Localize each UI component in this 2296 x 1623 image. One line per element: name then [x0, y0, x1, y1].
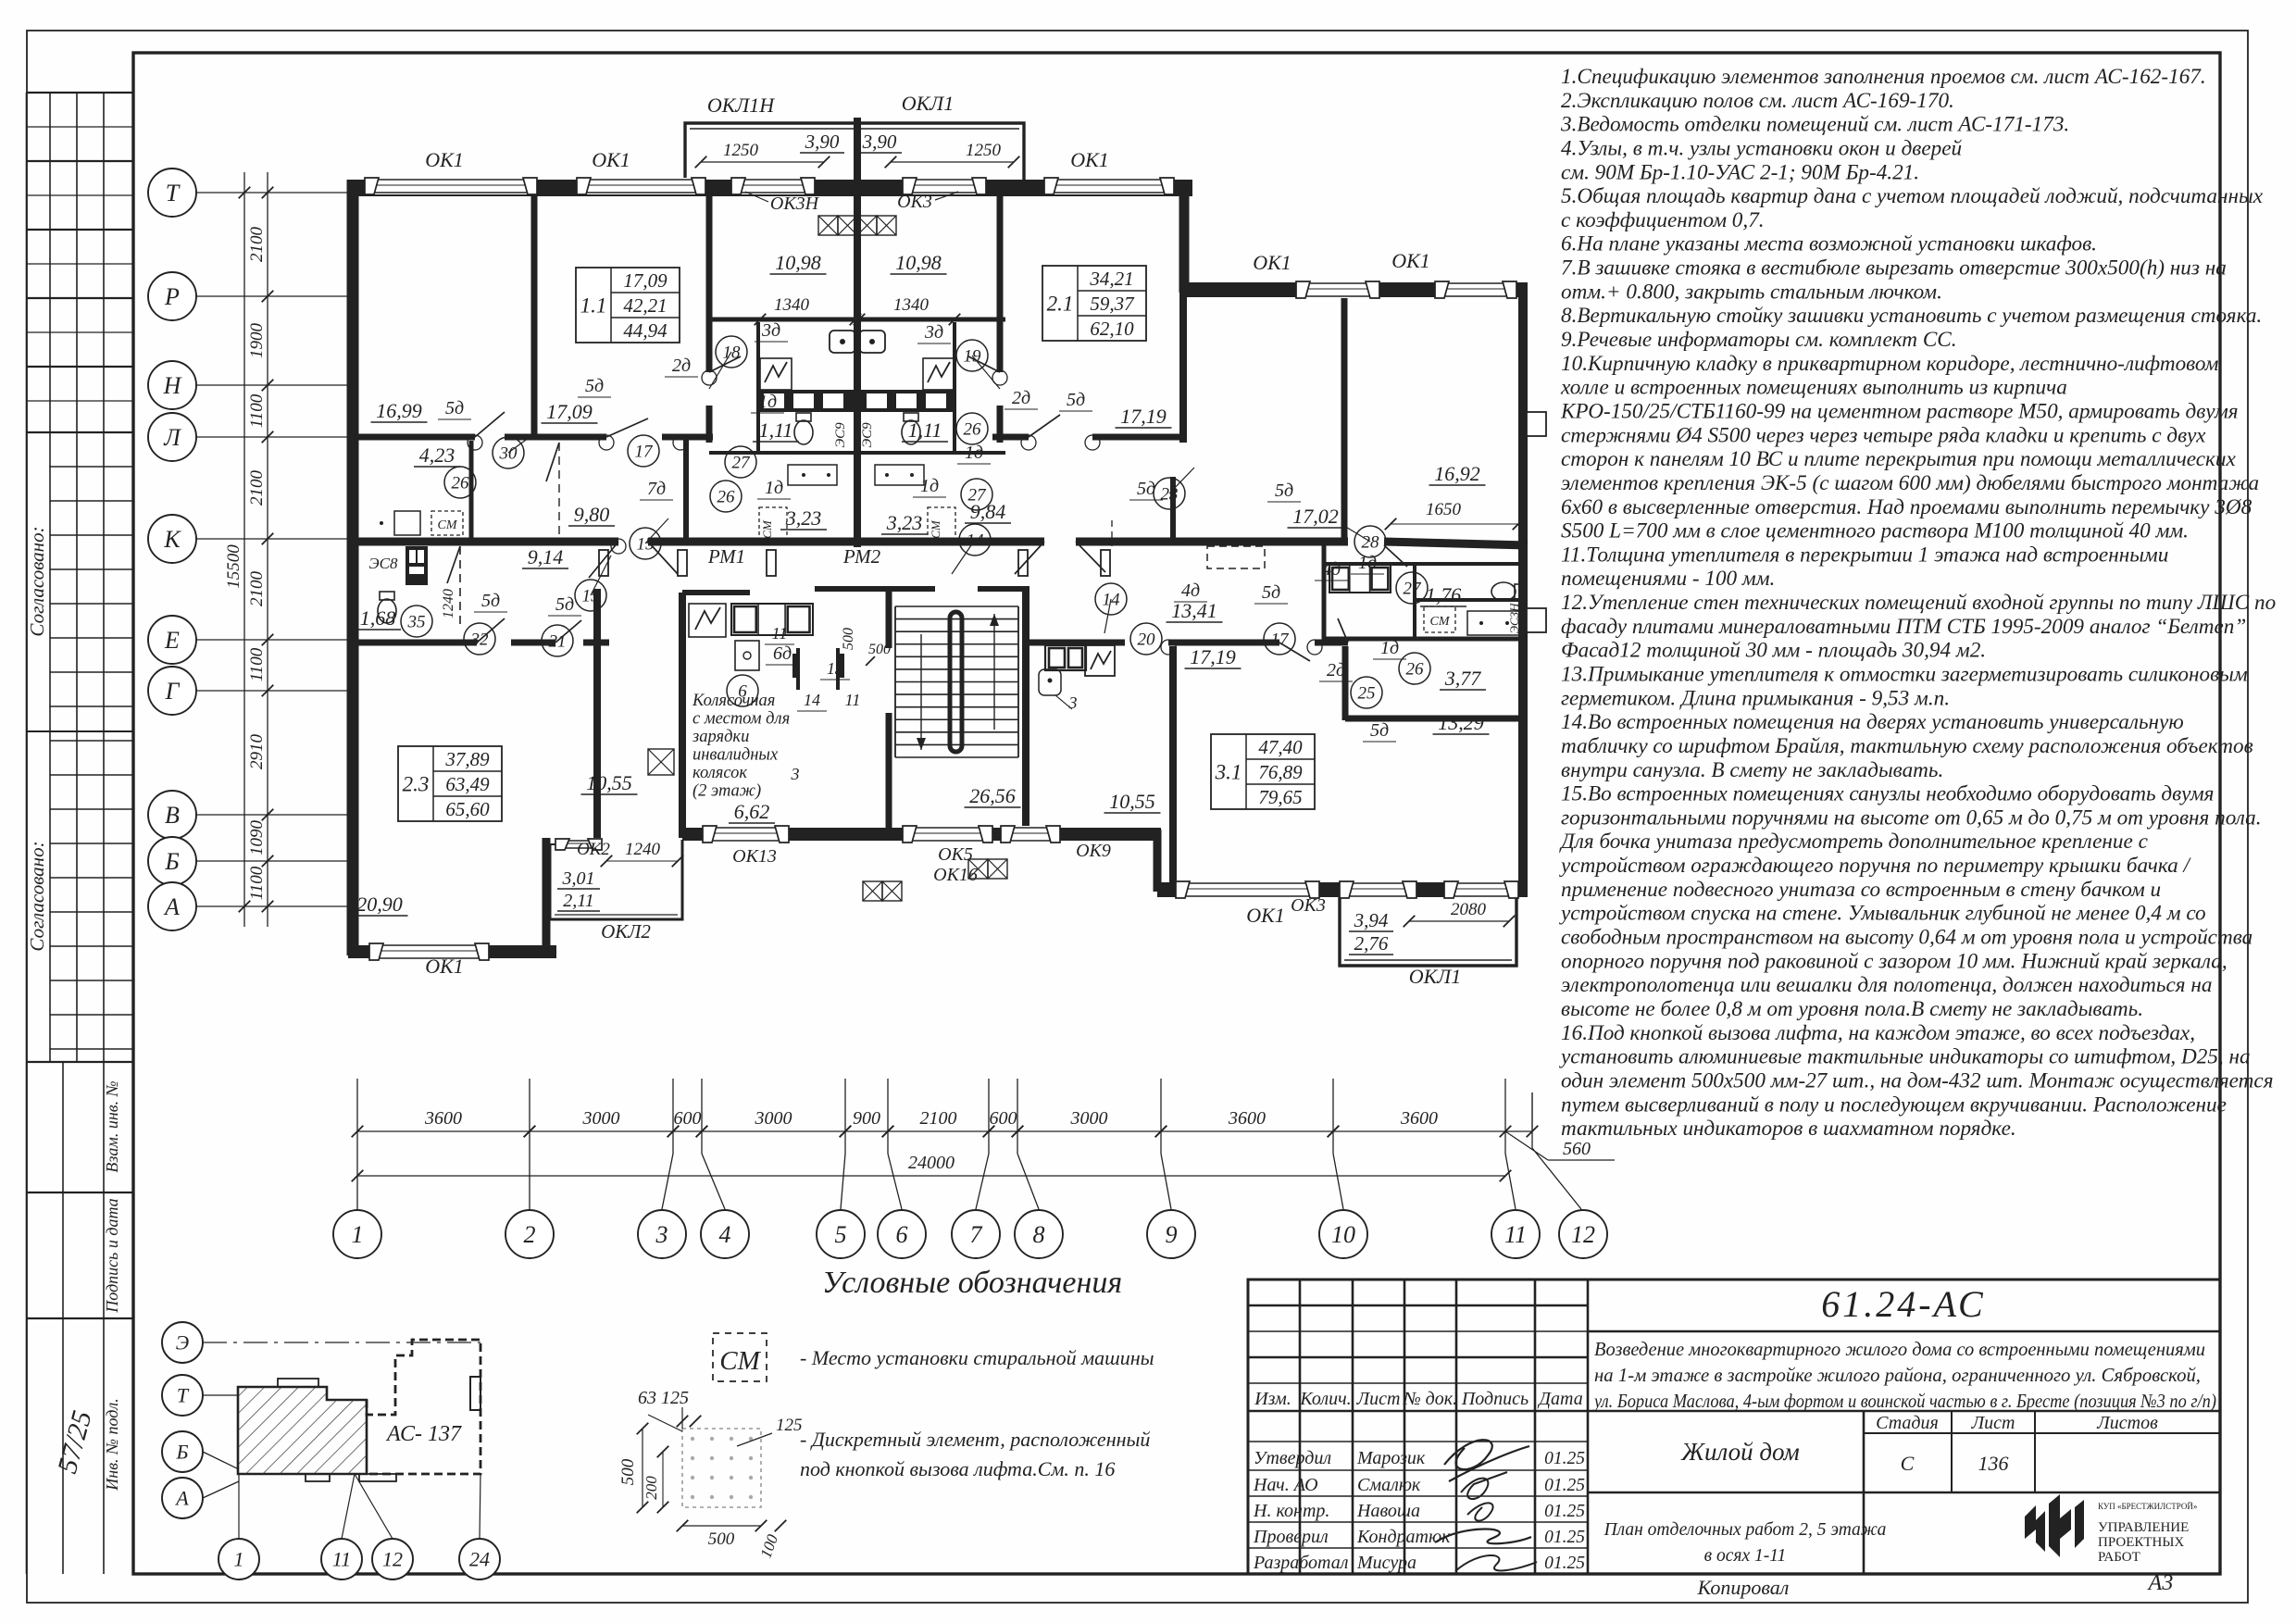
door circle 26 [1399, 653, 1430, 684]
top wall left block [348, 180, 1192, 196]
left wall [347, 180, 359, 955]
svg-text:11: 11 [772, 624, 788, 643]
left strip columns [26, 93, 28, 1574]
svg-text:с коэффициентом 0,7.: с коэффициентом 0,7. [1561, 208, 1765, 232]
svg-text:СМ: СМ [719, 1346, 761, 1376]
svg-text:27: 27 [732, 454, 752, 473]
svg-text:помещениями - 100 мм.: помещениями - 100 мм. [1561, 567, 1775, 591]
key axis Э [162, 1322, 203, 1363]
svg-text:3,01: 3,01 [562, 868, 595, 889]
svg-text:Условные обозначения: Условные обозначения [822, 1266, 1122, 1300]
dark instal band left [758, 390, 854, 412]
svg-text:12: 12 [1571, 1221, 1595, 1248]
svg-text:1,11: 1,11 [908, 418, 942, 442]
svg-text:высоте не более 0,8 м от уровн: высоте не более 0,8 м от уровня пола.В с… [1561, 997, 2143, 1021]
svg-text:А3: А3 [2147, 1571, 2174, 1595]
bay OKL2 [550, 840, 682, 919]
area table 2.3 [398, 746, 502, 821]
cluster walls [756, 322, 760, 454]
svg-text:26,56: 26,56 [969, 784, 1016, 807]
svg-text:63,49: 63,49 [445, 773, 490, 795]
svg-text:УПРАВЛЕНИЕ: УПРАВЛЕНИЕ [2098, 1520, 2189, 1535]
svg-text:фасаду плитами минераловатными: фасаду плитами минераловатными ПТМ СТБ 1… [1561, 615, 2246, 639]
svg-text:ОК2: ОК2 [577, 840, 610, 859]
svg-text:2,76: 2,76 [1354, 932, 1389, 955]
svg-text:20: 20 [1138, 630, 1156, 650]
svg-text:Утвердил: Утвердил [1254, 1448, 1331, 1468]
wardrobe dashed [1207, 546, 1265, 568]
vestibule south wall y694 [1026, 640, 1125, 646]
svg-text:3: 3 [1068, 693, 1078, 712]
svg-text:зарядки: зарядки [692, 728, 749, 746]
svg-text:4д: 4д [1322, 559, 1341, 580]
doc number 61.24-AC [1588, 1330, 2220, 1333]
svg-text:17: 17 [635, 443, 655, 462]
svg-text:136: 136 [1978, 1452, 2009, 1475]
kitchen counter right block [1329, 565, 1391, 593]
key axis 12 [372, 1539, 413, 1579]
svg-text:500: 500 [868, 642, 891, 657]
stair walls [886, 589, 892, 648]
WC right [902, 413, 920, 444]
bottom wall right block [1157, 882, 1528, 897]
svg-text:7.В зашивке стояка в вестибюле: 7.В зашивке стояка в вестибюле вырезать … [1561, 256, 2227, 281]
svg-text:Кондратюк: Кондратюк [1356, 1527, 1451, 1547]
svg-text:РМ2: РМ2 [842, 545, 881, 568]
dark instal band right [861, 390, 956, 412]
svg-text:ОКЛ1: ОКЛ1 [902, 92, 954, 115]
svg-text:5д: 5д [1067, 390, 1085, 410]
svg-text:18: 18 [723, 343, 742, 363]
logo [2025, 1494, 2084, 1557]
key axis 24 [459, 1539, 500, 1579]
svg-text:17: 17 [1271, 630, 1291, 650]
svg-text:44,94: 44,94 [623, 319, 668, 342]
svg-text:1,68: 1,68 [360, 606, 396, 630]
svg-text:6д: 6д [773, 643, 792, 664]
svg-text:26: 26 [452, 474, 470, 493]
fridge zigzag right [923, 358, 955, 390]
svg-text:2100: 2100 [247, 227, 267, 263]
svg-text:13,41: 13,41 [1171, 599, 1217, 622]
svg-text:1240: 1240 [441, 589, 456, 618]
L-wall right apt segments [992, 434, 1029, 441]
svg-text:3,90: 3,90 [805, 131, 840, 153]
svg-text:76,89: 76,89 [1258, 761, 1303, 783]
axis 4 [701, 1079, 703, 1154]
svg-text:14: 14 [804, 691, 820, 709]
axis Г [148, 667, 196, 715]
svg-text:27: 27 [968, 486, 988, 506]
wall x766 room 1.1 right [706, 190, 713, 372]
svg-text:ОК1: ОК1 [592, 148, 630, 171]
svg-text:Колич.: Колич. [1299, 1389, 1351, 1409]
svg-text:14: 14 [967, 531, 985, 551]
svg-text:1д: 1д [1358, 553, 1377, 573]
svg-text:500: 500 [708, 1529, 735, 1549]
svg-text:2100: 2100 [247, 571, 267, 607]
door circle 15 [630, 528, 661, 559]
svg-text:- Дискретный элемент, располож: - Дискретный элемент, расположенный [800, 1428, 1150, 1451]
svg-text:ЭС8: ЭС8 [369, 555, 398, 572]
balcony top OKL1N OKL1 [685, 123, 1024, 192]
svg-text:15500: 15500 [224, 544, 243, 589]
step wall between blocks [1179, 184, 1190, 293]
windows corridor bottom [703, 826, 789, 843]
svg-text:5д: 5д [1370, 720, 1389, 741]
svg-text:инвалидных: инвалидных [693, 746, 779, 765]
svg-text:17,09: 17,09 [623, 269, 668, 292]
svg-text:17,19: 17,19 [1120, 405, 1167, 428]
svg-text:5д: 5д [1137, 479, 1155, 499]
svg-text:500: 500 [841, 628, 856, 650]
door circle 26 [956, 413, 988, 444]
svg-text:КРО-150/25/СТБ1160-99 на цемен: КРО-150/25/СТБ1160-99 на цементном раств… [1560, 399, 2239, 423]
svg-text:4.Узлы, в т.ч. узлы установки: 4.Узлы, в т.ч. узлы установки окон и две… [1561, 136, 1963, 160]
left strip top table [27, 92, 134, 94]
svg-text:ОК5: ОК5 [938, 844, 973, 865]
svg-text:5: 5 [835, 1221, 847, 1248]
svg-text:24000: 24000 [908, 1153, 955, 1173]
svg-text:1100: 1100 [247, 647, 267, 681]
svg-text:Листов: Листов [2096, 1413, 2158, 1433]
door circle 26 [444, 467, 476, 498]
door circle 30 [493, 437, 524, 468]
svg-text:13: 13 [827, 659, 843, 678]
area table 3.1 [1211, 734, 1315, 809]
svg-text:СМ: СМ [760, 519, 774, 539]
svg-text:3д: 3д [761, 320, 780, 341]
svg-text:26: 26 [964, 420, 982, 440]
svg-text:СМ: СМ [438, 518, 458, 532]
party wall x926 [854, 192, 861, 547]
washbasin cabinets [788, 465, 837, 485]
svg-text:2,11: 2,11 [563, 891, 594, 911]
vent blocks lower [648, 749, 674, 775]
wall x1267 below 17,02 [1170, 477, 1176, 545]
svg-text:6х60 в высверленные отверстия.: 6х60 в высверленные отверстия. Над проем… [1561, 495, 2252, 519]
svg-text:24: 24 [469, 1548, 490, 1571]
svg-text:01.25: 01.25 [1544, 1476, 1585, 1495]
svg-text:11: 11 [1504, 1221, 1527, 1248]
svg-text:10.Кирпичную кладку в прикварт: 10.Кирпичную кладку в приквартирном кори… [1561, 352, 2219, 376]
svg-text:Подпись: Подпись [1461, 1389, 1529, 1409]
wall x509 bath 4.23 [469, 441, 474, 540]
svg-text:3.Ведомость отделки помещений: 3.Ведомость отделки помещений см. лист А… [1560, 113, 2069, 137]
svg-text:Б: Б [176, 1441, 189, 1464]
svg-text:внутри санузла. В смету не зак: внутри санузла. В смету не закладывать. [1561, 758, 1943, 782]
svg-text:ОК1: ОК1 [425, 955, 464, 978]
main cross wall x1278 lower [1179, 293, 1187, 443]
svg-text:АС- 137: АС- 137 [385, 1422, 462, 1446]
key axis Б [162, 1431, 203, 1472]
svg-text:15.Во встроенных помещениях са: 15.Во встроенных помещениях санузлы необ… [1561, 782, 2214, 806]
left vertical dimension lines [243, 172, 245, 927]
svg-text:Для бочка унитаза предусмотрет: Для бочка унитаза предусмотреть дополнит… [1559, 830, 2149, 854]
axis 12 [1531, 1092, 1533, 1148]
svg-text:стержнями Ø4 S500 через через: стержнями Ø4 S500 через через четыре ряд… [1561, 423, 2206, 447]
svg-text:5д: 5д [1275, 481, 1293, 501]
svg-text:А: А [163, 893, 180, 920]
svg-text:ОК1: ОК1 [1391, 249, 1430, 272]
door circle 20 [1130, 623, 1162, 655]
axis 5 [844, 1079, 846, 1154]
svg-text:1: 1 [352, 1221, 364, 1248]
fridge zigzag left [760, 358, 792, 390]
door circle 15 [575, 580, 606, 611]
axis А [148, 882, 196, 930]
axis Т [148, 169, 196, 217]
svg-text:устройством ограждающего поруч: устройством ограждающего поручня по пери… [1559, 854, 2192, 878]
door circle 27 [725, 446, 756, 478]
svg-text:2д: 2д [1012, 388, 1030, 408]
axis 9 [1160, 1079, 1162, 1154]
door leaves L-wall [475, 412, 505, 437]
axis В [148, 791, 196, 839]
svg-text:1240: 1240 [625, 840, 661, 859]
svg-text:1100: 1100 [247, 866, 267, 900]
svg-text:01.25: 01.25 [1544, 1449, 1585, 1468]
corridor bottom wall [682, 828, 1161, 841]
svg-text:ЭС9: ЭС9 [833, 422, 848, 448]
svg-text:79,65: 79,65 [1258, 786, 1302, 808]
svg-text:17,19: 17,19 [1190, 645, 1236, 668]
svg-text:ОК1: ОК1 [1070, 148, 1109, 171]
svg-text:применение подвесного унитаза: применение подвесного унитаза со встроен… [1561, 878, 2161, 902]
svg-text:3000: 3000 [582, 1108, 620, 1129]
svg-text:9.Речевые информаторы см. комп: 9.Речевые информаторы см. комплект СС. [1561, 328, 1957, 352]
area table 2.1 [1042, 266, 1146, 341]
svg-text:5.Общая площадь квартир дана с: 5.Общая площадь квартир дана с учетом пл… [1561, 184, 2264, 208]
svg-text:59,37: 59,37 [1090, 293, 1135, 315]
svg-text:один элемент 500х500 мм-27 шт.: один элемент 500х500 мм-27 шт., на дом-4… [1561, 1068, 2273, 1092]
svg-text:тактильных индикаторов в шахма: тактильных индикаторов в шахматном поряд… [1561, 1117, 2016, 1141]
svg-text:с местом для: с местом для [693, 710, 790, 729]
svg-text:ЭС9: ЭС9 [860, 422, 875, 448]
svg-text:1д: 1д [965, 443, 983, 463]
door circle 6 [727, 675, 758, 706]
svg-text:ОК16: ОК16 [933, 865, 978, 885]
ES8 installation [406, 546, 428, 585]
svg-text:РАБОТ: РАБОТ [2098, 1550, 2140, 1565]
project description [1588, 1410, 2220, 1413]
svg-text:65,60: 65,60 [445, 798, 490, 820]
axis 11 [1504, 1079, 1506, 1154]
partitions small rooms right [1322, 545, 1327, 641]
svg-text:3.1: 3.1 [1215, 761, 1242, 784]
svg-text:Л: Л [163, 424, 181, 451]
svg-text:Подпись и дата: Подпись и дата [103, 1198, 121, 1313]
svg-text:Возведение многоквартирного жи: Возведение многоквартирного жилого дома … [1594, 1338, 2205, 1360]
svg-text:37,89: 37,89 [444, 748, 490, 770]
svg-text:1: 1 [234, 1548, 244, 1571]
axis Б [148, 837, 196, 885]
axis К [148, 515, 196, 563]
svg-text:12.Утепление стен технических: 12.Утепление стен технических помещений … [1561, 591, 2276, 615]
svg-text:10,98: 10,98 [775, 251, 821, 274]
svg-text:11: 11 [332, 1548, 351, 1571]
svg-text:10,55: 10,55 [586, 771, 632, 794]
key plan outline [238, 1387, 367, 1474]
svg-text:Согласовано:: Согласовано: [26, 841, 48, 951]
svg-text:Е: Е [164, 627, 180, 654]
svg-text:3600: 3600 [424, 1108, 462, 1129]
svg-text:2д: 2д [672, 356, 691, 376]
svg-text:Копировал: Копировал [1697, 1576, 1790, 1599]
svg-text:3000: 3000 [755, 1108, 792, 1129]
axis 7 [988, 1079, 990, 1154]
svg-text:62,10: 62,10 [1090, 318, 1134, 340]
svg-text:8.Вертикальную стойку зашивки: 8.Вертикальную стойку зашивки установить… [1561, 304, 2262, 328]
svg-text:9,80: 9,80 [574, 503, 610, 526]
svg-text:Жилой дом: Жилой дом [1680, 1438, 1799, 1466]
svg-text:А: А [174, 1487, 189, 1510]
svg-text:Р: Р [164, 283, 180, 310]
svg-text:1250: 1250 [966, 141, 1002, 160]
bottom wall left room [348, 945, 556, 958]
svg-text:герметиком. Длина примыкания -: герметиком. Длина примыкания - 9,53 м.п. [1561, 686, 1950, 710]
svg-text:Дата: Дата [1537, 1389, 1582, 1409]
svg-text:01.25: 01.25 [1544, 1528, 1585, 1547]
svg-text:2910: 2910 [247, 734, 267, 770]
svg-text:8: 8 [1033, 1221, 1045, 1248]
svg-text:ОКЛ2: ОКЛ2 [601, 920, 651, 943]
svg-text:1340: 1340 [893, 295, 930, 315]
svg-text:3,23: 3,23 [886, 511, 923, 534]
key plan right part dashed [367, 1340, 480, 1474]
svg-text:500: 500 [618, 1458, 638, 1485]
svg-text:3000: 3000 [1070, 1108, 1108, 1129]
svg-text:1900: 1900 [247, 323, 267, 359]
svg-text:ОК1: ОК1 [1253, 251, 1291, 274]
svg-text:№ док.: № док. [1403, 1389, 1457, 1409]
svg-text:устройством спуска на стене. У: устройством спуска на стене. Умывальник … [1559, 902, 2206, 926]
axis 8 [1017, 1079, 1018, 1154]
svg-text:34,21: 34,21 [1089, 268, 1133, 290]
svg-text:1100: 1100 [247, 393, 267, 428]
svg-text:колясок: колясок [693, 764, 747, 782]
svg-text:1.1: 1.1 [580, 294, 607, 318]
svg-text:СМ: СМ [929, 519, 942, 539]
svg-text:61.24-АС: 61.24-АС [1821, 1283, 1985, 1325]
svg-text:ОКЛ1: ОКЛ1 [1409, 965, 1461, 988]
svg-text:План отделочных работ 2, 5 эта: План отделочных работ 2, 5 этажа [1603, 1520, 1887, 1540]
svg-text:47,40: 47,40 [1258, 736, 1303, 758]
right wall pilasters [1527, 412, 1546, 436]
signatures [1444, 1440, 1529, 1481]
svg-text:4д: 4д [1181, 581, 1200, 601]
svg-text:ОК13: ОК13 [732, 846, 777, 867]
door circle 32 [464, 623, 495, 655]
svg-text:12: 12 [382, 1548, 403, 1571]
svg-text:Проверил: Проверил [1253, 1527, 1329, 1547]
svg-text:10: 10 [1331, 1221, 1355, 1248]
svg-text:Т: Т [177, 1384, 190, 1407]
svg-text:Колясочная: Колясочная [692, 692, 775, 710]
svg-text:ПРОЕКТНЫХ: ПРОЕКТНЫХ [2098, 1535, 2184, 1550]
svg-text:2080: 2080 [1451, 900, 1487, 919]
svg-text:ОК1: ОК1 [425, 148, 464, 171]
svg-text:Фасад12 толщиной 30 мм - площа: Фасад12 толщиной 30 мм - площадь 30,94 м… [1561, 639, 1986, 663]
svg-text:17,09: 17,09 [546, 400, 593, 423]
svg-text:Т: Т [166, 180, 181, 206]
axis Л [148, 413, 196, 461]
door circle 17 [1264, 623, 1295, 655]
svg-text:13.Примыкание утеплителя к отм: 13.Примыкание утеплителя к отмостки заге… [1561, 663, 2248, 687]
svg-text:3,90: 3,90 [862, 131, 897, 153]
key axis А [162, 1478, 203, 1518]
svg-text:1250: 1250 [723, 141, 759, 160]
door circle 25 [1351, 677, 1382, 708]
door circle 27 [1396, 572, 1428, 604]
svg-text:900: 900 [853, 1108, 880, 1129]
svg-text:под кнопкой вызова лифта.См. п: под кнопкой вызова лифта.См. п. 16 [800, 1457, 1115, 1480]
svg-text:11.Толщина утеплителя в перекр: 11.Толщина утеплителя в перекрытии 1 эта… [1561, 543, 2168, 567]
svg-text:Н. контр.: Н. контр. [1253, 1501, 1329, 1521]
room 2.3 right wall lower [543, 838, 551, 955]
svg-text:отм.+ 0.800, закрыть стальным: отм.+ 0.800, закрыть стальным лючком. [1561, 280, 1942, 304]
axis 3 [672, 1079, 674, 1154]
svg-text:Лист: Лист [1356, 1389, 1401, 1409]
svg-text:20,90: 20,90 [356, 893, 403, 916]
svg-text:ОК9: ОК9 [1076, 841, 1111, 861]
svg-text:ОК3Н: ОК3Н [770, 194, 820, 214]
svg-text:ОК3: ОК3 [1291, 895, 1326, 916]
door circle 14 [1095, 583, 1127, 615]
door circle 18 [716, 336, 747, 368]
kitchen counters at vestibule left [731, 604, 813, 635]
svg-text:5д: 5д [481, 591, 500, 611]
svg-text:1,76: 1,76 [1426, 583, 1462, 606]
svg-text:125: 125 [776, 1416, 803, 1435]
wall 17,02/16,92 x1452 [1341, 293, 1348, 545]
windows top wall right block [1296, 281, 1379, 298]
svg-text:Инв. № подл.: Инв. № подл. [103, 1398, 121, 1491]
door circle 26 [710, 481, 742, 512]
svg-text:11: 11 [845, 691, 861, 709]
door circle 19 [956, 340, 988, 371]
svg-text:6.На плане указаны места возмо: 6.На плане указаны места возможной устан… [1561, 232, 2097, 256]
svg-text:3д: 3д [924, 322, 943, 343]
svg-text:1д: 1д [920, 476, 939, 496]
sinks at party wall [830, 331, 855, 353]
svg-text:Разработал: Разработал [1253, 1553, 1349, 1573]
svg-text:(2 этаж): (2 этаж) [693, 782, 761, 801]
svg-text:7: 7 [970, 1221, 983, 1248]
washbasin right block [1467, 611, 1519, 635]
svg-text:В: В [165, 802, 180, 829]
wall x1080 room2.1 left [997, 190, 1004, 372]
svg-text:26: 26 [717, 488, 736, 507]
fridge left kitchen [689, 604, 726, 637]
svg-text:200: 200 [643, 1476, 660, 1500]
svg-text:3: 3 [655, 1221, 668, 1248]
key axis 11 [321, 1539, 362, 1579]
svg-text:28: 28 [1362, 533, 1380, 553]
svg-text:элементов крепления ЭК-5 (с ша: элементов крепления ЭК-5 (с шагом 600 мм… [1561, 471, 2259, 495]
svg-text:1.Спецификацию элементов запол: 1.Спецификацию элементов заполнения прое… [1561, 65, 2206, 89]
step wall x1250 [1154, 830, 1162, 892]
window bottom left OK1 [369, 943, 489, 960]
svg-text:Навоша: Навоша [1356, 1501, 1420, 1521]
svg-text:26: 26 [1406, 660, 1425, 680]
svg-text:42,21: 42,21 [623, 294, 667, 317]
svg-text:35: 35 [407, 613, 426, 632]
svg-text:ОК1: ОК1 [1246, 904, 1285, 927]
svg-text:1д: 1д [758, 392, 777, 412]
svg-text:на 1-м этаже в застройке жилог: на 1-м этаже в застройке жилого района, … [1594, 1364, 2201, 1386]
svg-text:Лист: Лист [1971, 1413, 2015, 1433]
